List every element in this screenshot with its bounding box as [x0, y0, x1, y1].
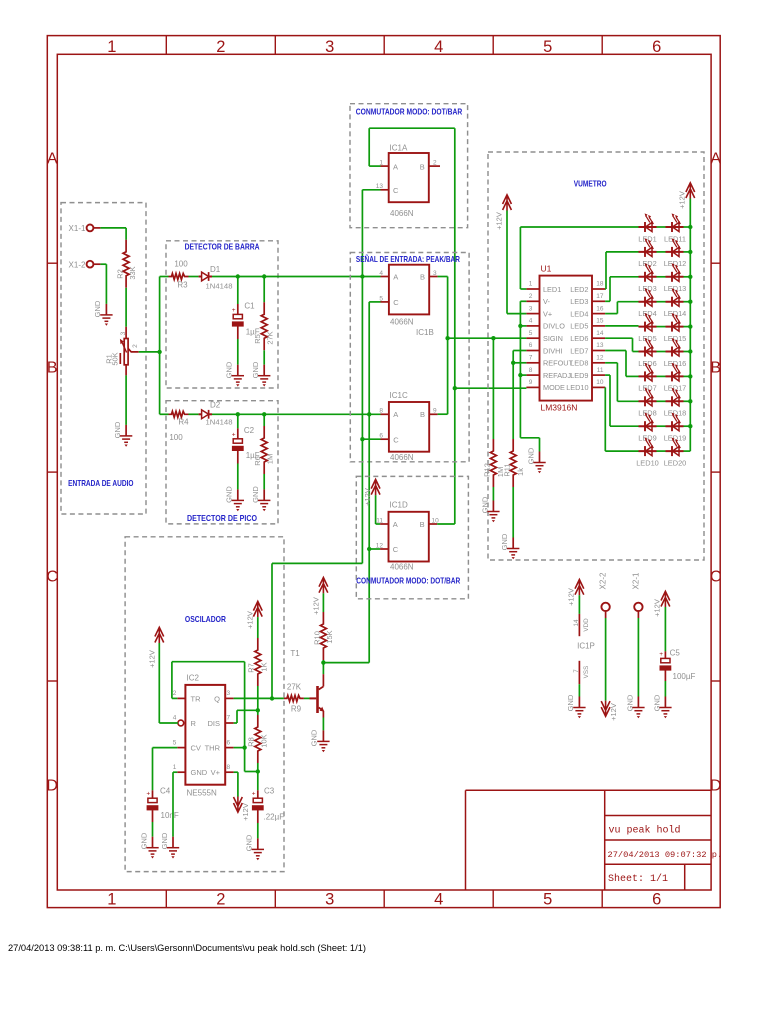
box VUMETRO: [488, 152, 704, 560]
LED LED7: [638, 363, 657, 393]
svg-text:VDD: VDD: [583, 618, 590, 632]
LED LED5: [638, 313, 657, 343]
ground GND C2: [232, 489, 244, 511]
svg-text:LED17: LED17: [664, 384, 687, 393]
LED LED4: [638, 288, 657, 318]
svg-text:1K: 1K: [260, 662, 269, 671]
wire U1 pin16 to LED row: [605, 302, 638, 314]
wire C4 to ground: [152, 822, 154, 837]
svg-text:LED2: LED2: [570, 285, 588, 294]
LED LED20: [664, 438, 687, 468]
svg-text:IC1P: IC1P: [577, 642, 595, 651]
junction bar signal to IC1A control: [360, 274, 364, 278]
svg-text:1: 1: [529, 281, 533, 288]
svg-text:GND: GND: [225, 486, 234, 503]
resistor R10 15K: [312, 612, 334, 663]
svg-text:A: A: [393, 273, 398, 282]
svg-text:B: B: [420, 273, 425, 282]
connector X2-1: [631, 572, 642, 696]
svg-text:D: D: [710, 778, 722, 795]
svg-text:NE555N: NE555N: [187, 789, 217, 798]
svg-text:GND: GND: [113, 421, 122, 438]
driver U1 LM3916N: [540, 264, 593, 413]
svg-text:V-: V-: [543, 297, 550, 306]
wire X1-1 to R2: [100, 228, 126, 240]
title block outline: [466, 790, 712, 890]
+12V above R10: [322, 593, 324, 612]
wire R1 to ground: [125, 375, 127, 425]
svg-text:D2: D2: [210, 400, 221, 409]
capacitor C3 .22uF: [252, 787, 285, 824]
svg-text:LED12: LED12: [664, 259, 687, 268]
junction rail row 1: [688, 225, 692, 229]
LED LED17: [664, 363, 687, 393]
svg-text:27K: 27K: [287, 683, 302, 692]
junction R6 top: [262, 412, 266, 416]
svg-text:1: 1: [173, 764, 177, 771]
svg-text:DIVHI: DIVHI: [543, 346, 562, 355]
wire U1 pin17 to LED row: [605, 277, 638, 302]
svg-text:8: 8: [379, 408, 383, 415]
junction REFADJ tap: [518, 373, 522, 377]
svg-text:7: 7: [573, 669, 580, 673]
svg-text:R2: R2: [116, 269, 125, 279]
svg-text:3: 3: [325, 38, 334, 56]
ground GND U1: [533, 452, 545, 474]
ground GND IC2: [167, 837, 179, 859]
frame column numbers bottom: [107, 891, 661, 909]
svg-text:A: A: [393, 520, 398, 529]
svg-text:4066N: 4066N: [390, 563, 414, 572]
svg-text:16: 16: [596, 305, 604, 312]
wire U1 pin15 to LED row: [605, 325, 638, 327]
wire Q output to R9: [234, 697, 284, 699]
pin U1 13 LED7: [570, 342, 605, 355]
pin IC1D 12: [376, 542, 389, 549]
svg-text:100: 100: [169, 433, 183, 442]
svg-text:12: 12: [596, 355, 604, 362]
wire LED row 9 segments: [657, 425, 691, 427]
junction IC1C control tap: [360, 437, 364, 441]
wire LED row 3 segments: [657, 276, 691, 278]
svg-text:4066N: 4066N: [390, 453, 414, 462]
junction THR junction: [242, 745, 246, 749]
junction peak signal to T1 collector net: [367, 412, 371, 416]
svg-text:GND: GND: [481, 496, 490, 513]
pin IC1B 5: [379, 295, 389, 302]
junction Q junction: [270, 696, 274, 700]
wire bar line to IC1B pin 4: [212, 276, 381, 278]
svg-text:VSS: VSS: [583, 666, 590, 679]
frame column dividers top: [166, 36, 602, 55]
svg-text:C: C: [710, 569, 722, 586]
wire U1 pin12 to LED row: [605, 363, 638, 402]
svg-text:5: 5: [543, 891, 552, 909]
wire X1-2 to ground: [100, 264, 106, 304]
drawing frame outer border: [47, 36, 720, 908]
capacitor C1 1uF: [232, 277, 260, 340]
svg-text:1: 1: [107, 38, 116, 56]
analog switch IC1C 4066N: [389, 391, 429, 462]
box DETECTOR DE BARRA: [166, 241, 278, 388]
svg-text:1N4148: 1N4148: [206, 417, 233, 426]
pin U1 16 LED4: [570, 305, 605, 318]
wire bar input to R3: [160, 276, 169, 278]
svg-text:33K: 33K: [128, 266, 137, 279]
svg-text:T1: T1: [290, 649, 300, 658]
wire R7 to DIS junction: [257, 686, 259, 710]
pin U1 18 LED2: [570, 281, 605, 294]
svg-text:R3: R3: [177, 281, 188, 290]
wire IC1A pin13: [362, 189, 380, 191]
pin U1 3 V+: [526, 305, 552, 318]
svg-text:R5: R5: [253, 334, 262, 344]
LED LED14: [664, 288, 687, 318]
wire U1 V+ to +12V: [507, 211, 526, 314]
junction REFOUT tap: [511, 361, 515, 365]
svg-text:A: A: [710, 151, 721, 168]
ground GND C3: [252, 838, 264, 860]
svg-text:+12V: +12V: [609, 703, 618, 721]
junction DIVLO tap: [518, 324, 522, 328]
svg-text:1N4148: 1N4148: [206, 281, 233, 290]
svg-text:GND: GND: [566, 694, 575, 711]
pin U1 15 LED5: [570, 318, 605, 331]
box DETECTOR DE PICO: [166, 401, 278, 524]
svg-text:10K: 10K: [260, 734, 269, 747]
svg-text:13: 13: [596, 342, 604, 349]
wire R5 to ground: [263, 350, 265, 364]
svg-text:V+: V+: [211, 768, 221, 777]
svg-text:LM3916N: LM3916N: [541, 403, 578, 413]
wire LED row 6 segments: [657, 351, 691, 353]
pin U1 5 SIGIN: [526, 330, 562, 343]
svg-text:50K: 50K: [111, 352, 120, 365]
LED LED6: [638, 338, 657, 368]
pin IC2 6 THR: [225, 739, 233, 747]
svg-text:GND: GND: [225, 361, 234, 378]
diode D1 1N4148: [199, 265, 233, 291]
junction rail row 2: [688, 250, 692, 254]
capacitor C5 100uF: [653, 591, 696, 697]
svg-text:X2-1: X2-1: [631, 572, 640, 589]
junction R7 R8 junction: [256, 708, 260, 712]
pin IC1D 11: [376, 517, 388, 524]
svg-text:+12V: +12V: [363, 488, 372, 506]
svg-text:SEÑAL DE ENTRADA: PEAK/BAR: SEÑAL DE ENTRADA: PEAK/BAR: [356, 254, 460, 264]
wire R3 to D1: [189, 276, 199, 278]
wire R2 to R1: [125, 288, 127, 327]
LED LED12: [664, 238, 687, 268]
svg-text:18: 18: [596, 281, 604, 288]
svg-text:4066N: 4066N: [390, 318, 414, 327]
connector X2-2: [599, 572, 610, 701]
LED LED13: [664, 263, 687, 293]
resistor R4 100: [169, 411, 190, 442]
svg-text:6: 6: [652, 38, 661, 56]
wire mode to U1 pin9: [455, 387, 527, 389]
wire U1 pin11 to LED row: [605, 375, 638, 426]
svg-text:R6: R6: [253, 456, 262, 466]
svg-text:IC1D: IC1D: [390, 501, 408, 510]
svg-text:LED20: LED20: [664, 458, 687, 467]
svg-text:R7: R7: [247, 663, 256, 673]
LED LED8: [638, 388, 657, 418]
svg-text:C: C: [393, 298, 399, 307]
wire T1 emitter to ground: [322, 718, 324, 731]
wire U1 pin14 to LED row: [605, 338, 638, 351]
svg-text:+12V: +12V: [241, 803, 250, 821]
svg-text:X1-2: X1-2: [69, 260, 86, 269]
svg-text:GND: GND: [93, 300, 102, 317]
svg-text:Sheet: 1/1: Sheet: 1/1: [608, 873, 668, 885]
ground GND R6: [258, 489, 270, 511]
svg-text:LED8: LED8: [570, 359, 588, 368]
junction SIGIN tap: [445, 336, 449, 340]
junction collector node: [321, 660, 325, 664]
svg-text:GND: GND: [310, 729, 319, 746]
svg-text:GND: GND: [140, 832, 149, 849]
svg-text:IC2: IC2: [187, 674, 200, 683]
svg-text:LED4: LED4: [638, 309, 657, 318]
svg-text:LED6: LED6: [570, 334, 588, 343]
wire IC1D pin12: [369, 548, 380, 550]
pin U1 11 LED9: [570, 367, 605, 380]
wire U1 DIVHI REFOUT to R11: [513, 351, 526, 440]
ground GND X1-2: [100, 304, 112, 326]
+12V supply R10 top: [319, 577, 328, 593]
resistor R12 1M on SIGIN: [482, 338, 505, 487]
svg-text:+12V: +12V: [312, 597, 321, 615]
frame row dividers left: [47, 263, 57, 681]
svg-text:R10: R10: [312, 631, 321, 645]
svg-text:R9: R9: [291, 705, 302, 714]
wire U1 pin10 to LED row: [605, 387, 638, 451]
svg-text:3: 3: [325, 891, 334, 909]
junction C2 top: [236, 412, 240, 416]
svg-text:CV: CV: [191, 744, 201, 753]
wire C1 to ground: [237, 339, 239, 365]
svg-text:+: +: [232, 431, 236, 438]
svg-text:vu peak hold: vu peak hold: [609, 825, 681, 837]
svg-text:+12V: +12V: [494, 212, 503, 230]
svg-text:LED13: LED13: [664, 284, 687, 293]
resistor R7 1K: [247, 617, 269, 686]
svg-text:REFOUT: REFOUT: [543, 359, 574, 368]
svg-text:C4: C4: [160, 787, 171, 796]
svg-text:B: B: [47, 360, 58, 377]
svg-text:7: 7: [227, 715, 231, 722]
box CONMUTADOR MODO DOT/BAR bottom: [356, 476, 468, 598]
svg-text:100µF: 100µF: [673, 672, 696, 681]
svg-text:+12V: +12V: [653, 599, 662, 617]
svg-text:IC1A: IC1A: [390, 144, 408, 153]
pin U1 14 LED6: [570, 330, 605, 343]
wire IC1B output to SIGIN net: [438, 277, 448, 415]
svg-text:C5: C5: [670, 649, 681, 658]
svg-text:4: 4: [434, 38, 443, 56]
svg-text:LED1: LED1: [638, 234, 657, 243]
wire LED row 1 segments: [657, 226, 691, 228]
svg-text:GND: GND: [251, 486, 260, 503]
ground GND R11: [507, 538, 519, 560]
resistor R5 27K: [253, 277, 275, 351]
svg-text:LED14: LED14: [664, 309, 687, 318]
svg-text:10nF: 10nF: [161, 811, 179, 820]
svg-text:7: 7: [529, 355, 533, 362]
drawing frame inner border: [57, 54, 711, 890]
potentiometer R1 50K: [105, 327, 140, 376]
pin U1 12 LED8: [570, 355, 605, 368]
svg-text:C1: C1: [244, 302, 255, 311]
wire C2 to ground: [237, 464, 239, 490]
frame row letters left: [46, 151, 58, 795]
junction R5 top: [262, 274, 266, 278]
svg-text:MODE: MODE: [543, 383, 565, 392]
+12V supply IC2 V+: [234, 797, 243, 813]
ground GND R5: [258, 365, 270, 387]
wire IC2 GND pin to ground: [173, 772, 177, 837]
svg-text:DIVLO: DIVLO: [543, 322, 565, 331]
+12V supply IC2 reset: [155, 627, 164, 643]
wire IC1B pin5 control: [369, 302, 380, 663]
svg-text:R4: R4: [178, 418, 189, 427]
svg-text:+12V: +12V: [148, 650, 157, 668]
svg-text:6: 6: [227, 739, 231, 746]
svg-text:C: C: [46, 569, 58, 586]
LED +12V rail: [689, 199, 691, 452]
+12V supply LED rail: [686, 183, 695, 199]
connector X1-2: [69, 260, 101, 269]
+12V supply R7 top: [253, 601, 262, 617]
junction rail row 5: [688, 324, 692, 328]
pin U1 7 REFOUT: [526, 355, 573, 368]
svg-text:9: 9: [433, 408, 437, 415]
resistor R3 100: [169, 260, 189, 290]
svg-text:4: 4: [529, 318, 533, 325]
wire C3 to ground: [257, 823, 259, 838]
svg-text:LED4: LED4: [570, 309, 588, 318]
svg-text:15K: 15K: [325, 630, 334, 643]
pin U1 6 DIVHI: [526, 342, 562, 355]
LED LED9: [638, 413, 657, 443]
svg-text:+12V: +12V: [246, 611, 255, 629]
svg-text:LED8: LED8: [638, 409, 657, 418]
transistor T1: [290, 649, 324, 718]
LED LED19: [664, 413, 687, 443]
svg-text:GND: GND: [160, 832, 169, 849]
capacitor C4 10nF: [146, 787, 178, 823]
junction IC1D control tap: [367, 547, 371, 551]
svg-text:LED9: LED9: [570, 371, 588, 380]
svg-text:LED18: LED18: [664, 409, 687, 418]
svg-text:LED1: LED1: [543, 285, 561, 294]
svg-text:LED19: LED19: [664, 434, 687, 443]
svg-text:4: 4: [434, 891, 443, 909]
svg-text:Q: Q: [214, 694, 220, 703]
svg-text:B: B: [420, 162, 425, 171]
svg-text:+12V: +12V: [567, 588, 576, 606]
svg-text:REFADJ: REFADJ: [543, 371, 571, 380]
wire U1 pin18 to LED row: [605, 252, 638, 289]
svg-text:A: A: [393, 410, 398, 419]
wire IC1C output: [438, 413, 448, 415]
junction rail row 9: [688, 424, 692, 428]
svg-text:C: C: [393, 435, 399, 444]
wire U1 pin13 to LED row: [605, 351, 638, 377]
svg-text:LED10: LED10: [636, 458, 659, 467]
svg-text:15: 15: [596, 318, 604, 325]
svg-text:SIGIN: SIGIN: [543, 334, 563, 343]
ground GND C4: [146, 837, 158, 859]
frame row dividers right: [711, 263, 720, 681]
svg-text:OSCILADOR: OSCILADOR: [185, 614, 226, 624]
svg-text:R11: R11: [502, 463, 511, 476]
analog switch IC1A 4066N: [389, 144, 429, 219]
wire oscillator control vertical: [361, 190, 363, 564]
connector X1-1: [69, 224, 101, 233]
LED LED15: [664, 313, 687, 343]
ground GND R1: [120, 425, 132, 447]
svg-text:DIS: DIS: [207, 719, 220, 728]
svg-text:VUMETRO: VUMETRO: [574, 179, 607, 189]
frame row letters right: [710, 151, 722, 795]
junction rail row 4: [688, 300, 692, 304]
svg-text:+: +: [146, 791, 150, 798]
pin IC2 8 V+: [225, 764, 233, 772]
svg-text:14: 14: [596, 330, 604, 337]
svg-text:GND: GND: [527, 447, 536, 464]
pin IC1D 10: [429, 517, 439, 524]
box OSCILADOR: [125, 537, 284, 872]
wire R12 to ground: [492, 487, 494, 501]
pin IC1A 13: [376, 183, 389, 190]
svg-text:2: 2: [433, 160, 437, 167]
wire IC2 CV to C4: [153, 748, 178, 791]
svg-text:CONMUTADOR MODO: DOT/BAR: CONMUTADOR MODO: DOT/BAR: [356, 107, 462, 117]
svg-text:R: R: [191, 719, 197, 728]
svg-text:+: +: [659, 651, 663, 658]
wire R8 to C3: [257, 763, 259, 772]
svg-text:LED3: LED3: [638, 284, 657, 293]
svg-text:LED11: LED11: [664, 234, 686, 243]
frame column numbers top: [107, 38, 661, 56]
wire Q to switching net: [272, 563, 362, 698]
svg-text:LED16: LED16: [664, 359, 687, 368]
svg-text:11: 11: [597, 367, 604, 374]
junction rail row 3: [688, 275, 692, 279]
LED LED2: [638, 238, 657, 268]
svg-text:+12V: +12V: [678, 191, 687, 209]
svg-text:LED10: LED10: [566, 383, 588, 392]
svg-text:5: 5: [543, 38, 552, 56]
pin U1 1 LED1: [526, 281, 561, 294]
svg-text:2: 2: [173, 690, 177, 697]
ground GND R12: [487, 501, 499, 523]
svg-text:2: 2: [529, 293, 533, 300]
svg-text:CONMUTADOR MODO: DOT/BAR: CONMUTADOR MODO: DOT/BAR: [356, 576, 460, 586]
svg-text:5: 5: [173, 739, 177, 746]
resistor R2 33K: [116, 240, 137, 288]
svg-text:GND: GND: [245, 834, 254, 851]
+12V supply IC1D pin11: [371, 479, 380, 495]
timer IC2 NE555N: [185, 674, 225, 798]
wire mode net vertical: [454, 128, 456, 524]
ground GND IC1P: [573, 697, 585, 719]
pin IC1A 1: [379, 160, 388, 167]
resistor R11 1K: [502, 439, 525, 487]
wire SIGIN to U1 pin5: [448, 337, 527, 339]
